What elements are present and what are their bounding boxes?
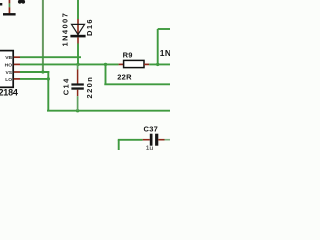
svg-text:1N4007: 1N4007 — [160, 48, 170, 58]
svg-text:C14: C14 — [61, 77, 70, 95]
svg-text:VB: VB — [5, 55, 12, 61]
svg-text:HO: HO — [5, 62, 13, 68]
svg-text:LO: LO — [5, 77, 12, 83]
svg-text:22R: 22R — [117, 73, 132, 82]
svg-text:R9: R9 — [123, 50, 133, 59]
svg-text:2184: 2184 — [0, 87, 18, 97]
svg-text:220n: 220n — [85, 76, 94, 99]
svg-text:D16: D16 — [85, 18, 94, 36]
svg-text:1u: 1u — [146, 145, 154, 150]
svg-text:VS: VS — [5, 70, 12, 76]
svg-text:C37: C37 — [144, 125, 159, 134]
svg-text:1N4007: 1N4007 — [60, 12, 69, 47]
